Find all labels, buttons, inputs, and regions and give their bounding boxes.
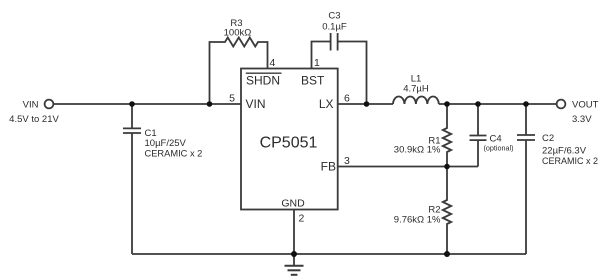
svg-text:CP5051: CP5051: [260, 135, 318, 152]
svg-text:4.7µH: 4.7µH: [403, 84, 429, 95]
svg-text:1: 1: [314, 57, 320, 69]
svg-text:VIN: VIN: [23, 100, 39, 111]
svg-text:(optional): (optional): [484, 144, 514, 153]
svg-text:GND: GND: [281, 198, 305, 210]
svg-text:2: 2: [299, 213, 305, 225]
svg-text:4.5V to 21V: 4.5V to 21V: [9, 114, 59, 125]
svg-text:LX: LX: [319, 97, 334, 111]
svg-text:10µF/25V: 10µF/25V: [145, 138, 187, 149]
svg-text:C3: C3: [328, 11, 340, 22]
svg-text:CERAMIC x 2: CERAMIC x 2: [145, 149, 203, 159]
svg-text:VIN: VIN: [246, 97, 266, 111]
svg-text:C2: C2: [542, 133, 554, 144]
svg-text:3: 3: [344, 155, 350, 167]
svg-text:3.3V: 3.3V: [572, 114, 592, 125]
svg-text:VOUT: VOUT: [572, 100, 599, 111]
svg-text:30.9kΩ 1%: 30.9kΩ 1%: [394, 145, 441, 156]
svg-text:0.1µF: 0.1µF: [322, 22, 347, 33]
svg-text:5: 5: [229, 93, 235, 105]
svg-text:CERAMIC x 2: CERAMIC x 2: [542, 156, 598, 166]
svg-text:100kΩ: 100kΩ: [224, 28, 252, 39]
svg-text:9.76kΩ 1%: 9.76kΩ 1%: [394, 215, 441, 226]
svg-text:6: 6: [344, 93, 350, 105]
svg-text:SHDN: SHDN: [246, 74, 280, 88]
svg-text:FB: FB: [321, 160, 336, 174]
svg-text:4: 4: [270, 57, 276, 69]
svg-text:22µF/6.3V: 22µF/6.3V: [542, 146, 587, 157]
svg-text:BST: BST: [301, 74, 325, 88]
